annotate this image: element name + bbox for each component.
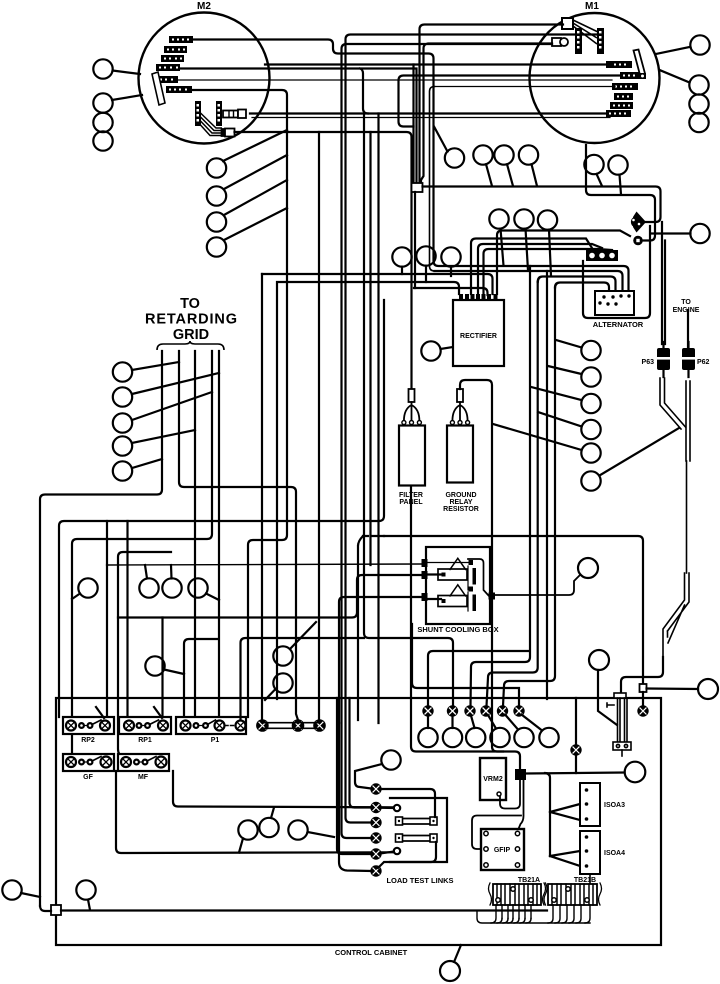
- svg-text:RECTIFIER: RECTIFIER: [460, 333, 497, 340]
- bolt B6: [514, 706, 523, 715]
- wire M2 bar6 to drop x287: [191, 90, 287, 717]
- callout circle LQ3: [538, 210, 557, 229]
- svg-text:GF: GF: [83, 774, 93, 781]
- link bar terminals: [257, 720, 325, 730]
- callout circle G3: [113, 413, 132, 432]
- wire grid line 5: [184, 351, 219, 720]
- callout circle BL2: [76, 880, 95, 899]
- ground relay resistor body: [447, 402, 473, 483]
- relay P1: [176, 717, 246, 734]
- M1 terminal bar D: [614, 93, 633, 100]
- callout circle A1: [581, 341, 600, 360]
- svg-text:ENGINE: ENGINE: [673, 307, 700, 314]
- wire RP1 right feed: [161, 618, 163, 721]
- callout circle A6: [581, 471, 600, 490]
- ISOA4 box: [580, 831, 600, 874]
- wire drop T1 link: [261, 274, 263, 720]
- wire GFIP left dot loop: [472, 816, 521, 850]
- wire SCB T2 feed Z: [118, 575, 422, 618]
- callout circle LP3: [519, 145, 538, 164]
- brace retarding grid: [157, 341, 224, 350]
- callout circle R1: [392, 247, 411, 266]
- callout circle TR4: [689, 113, 708, 132]
- bolt above wire: [571, 745, 580, 754]
- TB21A strip: [489, 883, 546, 905]
- callout circle C6: [539, 728, 558, 747]
- rectifier top lugs: [459, 294, 498, 301]
- callout circle L2: [93, 93, 112, 112]
- wire loop outer square to fan: [423, 187, 661, 223]
- wire Z to RP2 left: [59, 300, 384, 717]
- callout circle cabinet bottom: [440, 961, 460, 981]
- wire M1 plug to long vertical x341.5: [342, 44, 553, 838]
- wire square to filter fuse: [414, 192, 416, 288]
- callout circle BL1: [2, 880, 21, 899]
- wire bolt5 to link circle2: [381, 852, 394, 854]
- M2 insulator slash: [152, 72, 165, 105]
- wire M1 barC thin: [435, 86, 616, 88]
- wire x370.5 drop: [369, 132, 371, 565]
- wire rect bus 3: [414, 288, 488, 295]
- wire RP1 left feed: [126, 521, 128, 720]
- relay RP1: [119, 717, 171, 734]
- bolt B1: [423, 706, 432, 715]
- wire duct P62: [686, 381, 690, 461]
- callout circle M2a: [207, 158, 226, 177]
- wire M1 plug line to middle drop x423.5: [421, 44, 552, 185]
- callout circle M2b: [207, 186, 226, 205]
- wire grid line 4: [72, 351, 212, 757]
- wire M2 bar4: [180, 69, 417, 184]
- M1 terminal bar E: [610, 102, 633, 109]
- callout circle C5: [514, 728, 533, 747]
- link test bar 1: [396, 817, 438, 825]
- alternator box: [595, 291, 634, 315]
- wire loop inner M1 to bolt: [586, 145, 655, 241]
- SCB thyristor unit 1: [424, 558, 489, 595]
- bolt B2: [448, 706, 457, 715]
- callout circle M2d: [207, 237, 226, 256]
- M1 terminal bar A: [606, 61, 632, 68]
- TB fan-out wires: [477, 905, 590, 923]
- callout circle A5: [581, 443, 600, 462]
- filter panel fuse: [409, 389, 415, 402]
- wire drop to bolt5: [337, 698, 371, 854]
- wire x364 drop to B2: [364, 114, 453, 707]
- wire ISOA4 to TB21B stub: [589, 874, 591, 884]
- wire M1 strip to long vertical x345.6: [346, 35, 601, 823]
- callout circle TR1: [690, 35, 709, 54]
- wire P63 riser pair: [662, 222, 665, 344]
- callout circle C4: [490, 728, 509, 747]
- wire SCB T3 feed Z: [339, 597, 422, 723]
- bolt B5: [498, 706, 507, 715]
- load test bolt 3: [371, 818, 380, 827]
- load test bolt 5: [371, 849, 380, 858]
- wire bottom bus y911: [61, 909, 547, 911]
- svg-text:RESISTOR: RESISTOR: [443, 506, 479, 513]
- wire TO ENGINE to P62: [687, 310, 689, 348]
- M1 connector strip 2: [597, 28, 604, 54]
- svg-text:VRM2: VRM2: [483, 776, 503, 783]
- svg-text:LOAD TEST LINKS: LOAD TEST LINKS: [386, 876, 453, 885]
- callout circle LP4: [584, 155, 603, 174]
- callout circle VR: [625, 762, 646, 783]
- svg-text:FILTER: FILTER: [399, 492, 423, 499]
- ground relay resistor fuse: [457, 389, 463, 402]
- callout circle LM1: [78, 578, 97, 597]
- callout circle A3: [581, 394, 600, 413]
- wire diag RP2 to RP1 feed: [96, 707, 104, 718]
- wire duct tail to fuse elbow: [621, 657, 663, 694]
- junction square mid: [412, 183, 423, 192]
- wire drop to bolt6 curve: [339, 723, 371, 871]
- M2 terminal bar 3: [161, 55, 184, 62]
- SCB thyristor unit 2: [427, 585, 476, 611]
- callout circle BC3: [288, 820, 307, 839]
- callout circle BC2: [259, 818, 278, 837]
- control cabinet outline: [56, 698, 661, 945]
- callout circle C3: [466, 728, 485, 747]
- link test bar 2: [396, 834, 438, 842]
- svg-text:TO: TO: [681, 299, 691, 306]
- wire M2 lower plug long: [235, 132, 412, 389]
- alternator terminal block: [586, 250, 618, 261]
- svg-text:M1: M1: [585, 1, 599, 12]
- TB21B strip: [544, 883, 602, 905]
- wire rectifier risers to terminal block: [471, 239, 592, 295]
- callout circle LP2: [494, 145, 513, 164]
- callout circle TR3: [689, 94, 708, 113]
- M1 terminal bar F: [606, 110, 631, 117]
- GFIP box: [481, 829, 524, 870]
- svg-text:TB21A: TB21A: [518, 877, 540, 884]
- wire ISOA drop: [545, 773, 550, 856]
- callout circle A4: [581, 420, 600, 439]
- callout circle SCB: [578, 558, 598, 578]
- bolt B4: [481, 706, 490, 715]
- link circle 1: [394, 805, 400, 811]
- callout circle A2: [581, 367, 600, 386]
- svg-text:RP1: RP1: [138, 737, 152, 744]
- relay RP2: [63, 717, 114, 734]
- wire left bus to junction: [40, 906, 51, 911]
- rectifier box: [453, 300, 504, 366]
- SCB right terminal: [489, 593, 496, 600]
- callout circle TR2: [689, 75, 708, 94]
- alternator feed wire 4 with bundle drop to B5: [555, 283, 609, 292]
- link circle 2: [394, 848, 400, 854]
- wire duct P63 upper: [660, 378, 686, 429]
- M2 plug upper: [223, 110, 246, 119]
- bundle drop x547: [546, 271, 548, 699]
- wire P1 right feed via y638: [241, 638, 365, 720]
- M1 terminal bar B: [620, 72, 640, 79]
- svg-text:RETARDING: RETARDING: [145, 312, 237, 328]
- callout circle mid: [445, 148, 464, 167]
- callout circle LM5: [145, 656, 164, 675]
- wire GF to y853 bus: [116, 771, 394, 853]
- load test bolt 4: [371, 833, 380, 842]
- bolt right: [638, 706, 647, 715]
- svg-text:ALTERNATOR: ALTERNATOR: [593, 320, 644, 329]
- link test box: [390, 798, 447, 862]
- wire ISOA4 fork: [550, 851, 580, 866]
- bundle drop x530 to B3: [471, 266, 531, 706]
- wire drop to junction square from barA line: [412, 65, 414, 184]
- svg-text:PANEL: PANEL: [399, 499, 423, 506]
- wire square to GFIP right dot: [518, 780, 524, 830]
- wire M1 square to middle drop x419.5: [420, 25, 564, 185]
- wire M1 barA long line: [265, 63, 611, 65]
- wire x382 drop: [377, 114, 379, 724]
- callout circle L4: [93, 131, 112, 150]
- callout circle CM1: [273, 646, 292, 665]
- callout circle C2: [443, 728, 462, 747]
- fuse holder: [607, 693, 631, 756]
- wire engine harness single: [686, 461, 688, 573]
- relay MF: [118, 754, 169, 771]
- wire M1 barB via left drop: [399, 76, 621, 127]
- wire alternator loop left: [583, 226, 650, 318]
- wire bolt2 to link circle1: [381, 807, 394, 809]
- SCB terminal T3: [422, 593, 428, 601]
- callout circle G5: [113, 461, 132, 480]
- callout circle BC1: [238, 820, 257, 839]
- M1 jumper wires to strip: [573, 20, 598, 44]
- callout circle alt-right: [690, 224, 709, 243]
- callout circle LM2: [139, 578, 158, 597]
- callout circle LM3: [162, 578, 181, 597]
- M2 connector strip 2: [216, 101, 222, 126]
- callout circle G4: [113, 436, 132, 455]
- motor M2 circle: [139, 13, 270, 144]
- bolt symbol below fan: [633, 236, 643, 246]
- callout circle FU: [589, 650, 609, 670]
- svg-text:GROUND: GROUND: [445, 492, 476, 499]
- wire B1 feed: [428, 651, 528, 706]
- wire M2 bar4 branch drop x363: [360, 69, 368, 114]
- shunt cooling box outline: [426, 547, 490, 624]
- junction square right: [640, 684, 647, 692]
- alternator feed wire 2: [435, 271, 623, 291]
- wire thin y117: [252, 117, 610, 119]
- wire bar2 to bolt6: [378, 842, 436, 868]
- wire y552 to MF drop: [118, 552, 171, 760]
- M1 square connector: [562, 18, 573, 29]
- svg-text:ISOA4: ISOA4: [604, 850, 625, 857]
- wire duct lower fork: [663, 573, 689, 657]
- callout circle G2: [113, 387, 132, 406]
- junction square cabinet left: [51, 905, 61, 915]
- callout circle R3: [441, 247, 460, 266]
- wire RP2 right feed top: [106, 521, 108, 565]
- svg-text:GRID: GRID: [173, 327, 209, 343]
- callout circle L1: [93, 59, 112, 78]
- M2 connector strip 1: [195, 101, 201, 126]
- svg-text:SHUNT COOLING BOX: SHUNT COOLING BOX: [417, 625, 498, 634]
- callout circle FR: [698, 679, 718, 699]
- motor M1 circle: [530, 13, 660, 143]
- callout circle rect-left: [421, 341, 440, 360]
- wire dashdot segment: [363, 535, 384, 537]
- svg-text:MF: MF: [138, 774, 149, 781]
- callout circle M2c: [207, 212, 226, 231]
- ISOA3 box: [580, 783, 600, 826]
- wire rect bus 1: [262, 274, 493, 294]
- svg-text:P62: P62: [697, 359, 710, 366]
- connector P62: [682, 342, 696, 377]
- svg-text:GFIP: GFIP: [494, 847, 511, 854]
- M2 terminal bar 6: [166, 86, 192, 93]
- wire diag RP1 to P1 feed: [154, 707, 162, 718]
- svg-text:M2: M2: [197, 1, 211, 12]
- wire T1 feed drop to RP2: [106, 565, 108, 720]
- callout circle C1: [418, 728, 437, 747]
- callout circle LM4: [188, 578, 207, 597]
- wire x358 drop: [358, 536, 363, 720]
- wire bolt1 to bar1: [381, 789, 435, 817]
- fan symbol near alternator: [631, 212, 646, 233]
- M1 insulator slash: [634, 50, 646, 76]
- M2 terminal bar 2: [164, 46, 187, 53]
- M1 terminal bar C: [612, 83, 638, 90]
- svg-text:P1: P1: [211, 737, 220, 744]
- callout circle LQ1: [489, 209, 508, 228]
- svg-text:CONTROL CABINET: CONTROL CABINET: [335, 948, 408, 957]
- wire grid line 2: [179, 351, 298, 720]
- callout circle L3: [93, 113, 112, 132]
- M2 terminal bar 4: [156, 64, 180, 71]
- wire GRR fuse riser to x492 drop: [460, 380, 503, 752]
- wire rect bus 2: [277, 282, 459, 699]
- wire SCB bottom drop to B6: [412, 624, 519, 706]
- wire FP body to VRM2 drop: [411, 486, 520, 770]
- callout circle LQ2: [514, 209, 533, 228]
- M2 plug lower: [222, 129, 235, 137]
- wire drop to bolt2: [350, 698, 372, 808]
- M2 terminal bar pin dots: [159, 39, 189, 91]
- svg-text:P63: P63: [642, 359, 655, 366]
- wire M2 bar1 with jog to drop x431: [193, 40, 629, 292]
- wire M2 upper plug to barF bus: [250, 112, 607, 114]
- callout circle CM2: [273, 673, 292, 692]
- svg-text:TB21B: TB21B: [574, 877, 596, 884]
- relay GF: [63, 754, 114, 771]
- callout circle LP1: [473, 145, 492, 164]
- svg-text:TO: TO: [180, 296, 200, 312]
- callout circle G1: [113, 362, 132, 381]
- junction square VRM2: [515, 769, 526, 780]
- svg-text:ISOA3: ISOA3: [604, 802, 625, 809]
- svg-text:RELAY: RELAY: [449, 499, 472, 506]
- wire VRM2 dot loop: [500, 780, 520, 809]
- callout circle LP5: [608, 155, 627, 174]
- M1 plug: [552, 38, 568, 46]
- VRM2 box: [480, 758, 506, 800]
- svg-text:RP2: RP2: [81, 737, 95, 744]
- wire SCB T1 feed: [107, 564, 422, 565]
- wire MF to y803 bus: [173, 771, 394, 807]
- M2 strip jumper wires: [201, 113, 223, 136]
- M1 connector strip 1: [575, 28, 582, 54]
- alternator feed wire 3 with bundle drop to B4: [538, 277, 616, 292]
- wire grid line 1: [40, 351, 162, 906]
- wire grid line 3: [194, 351, 196, 720]
- filter panel body: [399, 402, 425, 486]
- bolt B3: [465, 706, 474, 715]
- wire ISOA3 fork: [550, 804, 580, 820]
- connector P63: [657, 342, 671, 377]
- SCB terminal T2: [422, 571, 428, 579]
- M2 terminal bar 1: [169, 36, 193, 43]
- load test bolt 6: [371, 866, 380, 875]
- load test bolt 2: [371, 803, 380, 812]
- callout circle R2: [416, 246, 435, 265]
- SCB terminal T1: [422, 559, 428, 567]
- M2 terminal bar 5: [157, 76, 178, 83]
- wire M2 bar5 thin: [177, 79, 612, 81]
- callout circle LT: [381, 750, 400, 769]
- load test bolt 1: [371, 784, 380, 793]
- wire branch x319 to load links: [318, 132, 320, 723]
